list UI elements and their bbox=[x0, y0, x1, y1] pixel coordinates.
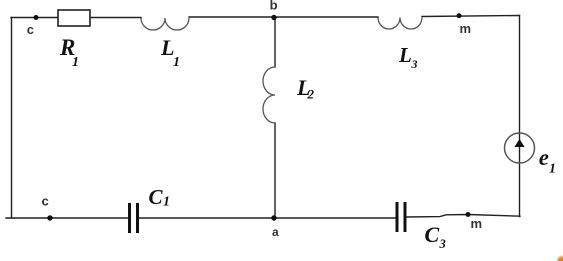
svg-text:b: b bbox=[270, 0, 278, 13]
svg-text:e: e bbox=[539, 145, 549, 170]
svg-text:a: a bbox=[272, 225, 279, 239]
svg-text:L: L bbox=[398, 43, 412, 67]
svg-text:1: 1 bbox=[163, 195, 170, 210]
svg-text:3: 3 bbox=[411, 57, 418, 71]
svg-text:1: 1 bbox=[72, 55, 79, 70]
svg-text:3: 3 bbox=[439, 237, 446, 251]
svg-text:m: m bbox=[471, 216, 483, 231]
svg-text:c: c bbox=[42, 194, 49, 209]
svg-text:1: 1 bbox=[549, 162, 556, 177]
svg-text:2: 2 bbox=[307, 87, 315, 102]
svg-text:C: C bbox=[425, 222, 440, 247]
svg-text:c: c bbox=[27, 22, 34, 37]
svg-text:C: C bbox=[149, 185, 164, 209]
svg-text:m: m bbox=[460, 21, 472, 36]
svg-text:1: 1 bbox=[173, 55, 180, 70]
